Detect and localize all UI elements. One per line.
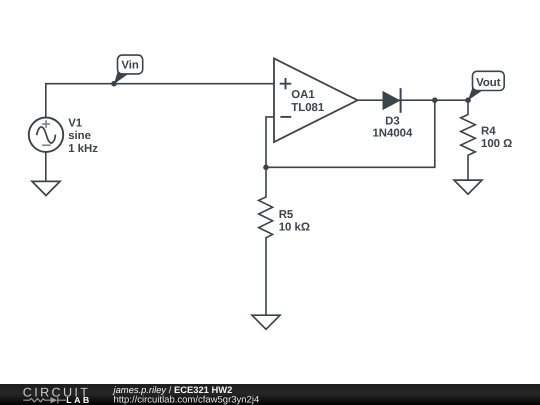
CircuitLab logo: [23, 385, 92, 404]
node Vout: [465, 71, 504, 103]
svg-text:R5: R5: [279, 209, 294, 221]
svg-text:Vin: Vin: [121, 60, 139, 72]
svg-text:http://circuitlab.com/cfaw5gr3: http://circuitlab.com/cfaw5gr3yn2j4: [114, 394, 260, 405]
footer bar: [0, 384, 540, 405]
svg-text:R4: R4: [481, 126, 496, 138]
wire: [45, 152, 47, 182]
ground: [252, 315, 280, 329]
node Vin: [111, 55, 143, 86]
wire: [266, 100, 435, 167]
svg-text:LAB: LAB: [66, 395, 91, 405]
resistor R5: [259, 167, 273, 315]
wire: [266, 117, 274, 167]
op-amp OA1: [274, 59, 358, 143]
svg-text:10 kΩ: 10 kΩ: [279, 222, 310, 234]
wire: [358, 99, 469, 101]
svg-text:sine: sine: [68, 130, 91, 142]
svg-text:D3: D3: [385, 116, 400, 128]
svg-text:100 Ω: 100 Ω: [481, 138, 512, 150]
svg-text:1N4004: 1N4004: [372, 128, 413, 140]
junction: [263, 165, 269, 171]
svg-text:TL081: TL081: [291, 102, 325, 114]
ground: [32, 181, 60, 195]
voltage source V1: [29, 118, 63, 152]
svg-text:V1: V1: [68, 117, 83, 129]
junction: [432, 97, 438, 103]
ground: [454, 180, 482, 194]
svg-text:OA1: OA1: [291, 89, 315, 101]
svg-text:Vout: Vout: [476, 77, 501, 89]
wire: [46, 84, 274, 118]
svg-text:1 kHz: 1 kHz: [68, 143, 98, 155]
resistor R4: [461, 100, 476, 180]
diode D3: [383, 88, 401, 113]
